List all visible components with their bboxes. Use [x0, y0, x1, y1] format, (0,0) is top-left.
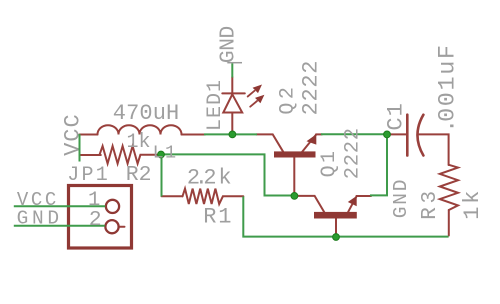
- svg-text:2.2k: 2.2k: [187, 166, 232, 191]
- svg-text:1k: 1k: [460, 188, 485, 220]
- svg-text:2: 2: [89, 208, 102, 232]
- svg-text:1k: 1k: [127, 131, 151, 154]
- svg-text:R1: R1: [203, 205, 231, 230]
- svg-text:L1: L1: [153, 142, 178, 163]
- svg-text:Q2: Q2: [276, 84, 299, 115]
- svg-text:VCC: VCC: [61, 113, 86, 156]
- svg-text:GND: GND: [17, 207, 63, 229]
- svg-text:C1: C1: [384, 102, 409, 130]
- svg-text:LED1: LED1: [204, 79, 227, 131]
- svg-text:Q1: Q1: [318, 149, 341, 178]
- svg-text:2222: 2222: [298, 60, 323, 116]
- svg-text:2222: 2222: [341, 127, 364, 179]
- svg-text:JP1: JP1: [67, 164, 110, 187]
- svg-text:470uH: 470uH: [113, 101, 180, 126]
- svg-text:R2: R2: [126, 163, 152, 187]
- svg-text:GND: GND: [390, 178, 412, 219]
- svg-text:.001uF: .001uF: [435, 43, 462, 133]
- svg-text:R3: R3: [419, 187, 442, 219]
- svg-text:GND: GND: [217, 26, 241, 63]
